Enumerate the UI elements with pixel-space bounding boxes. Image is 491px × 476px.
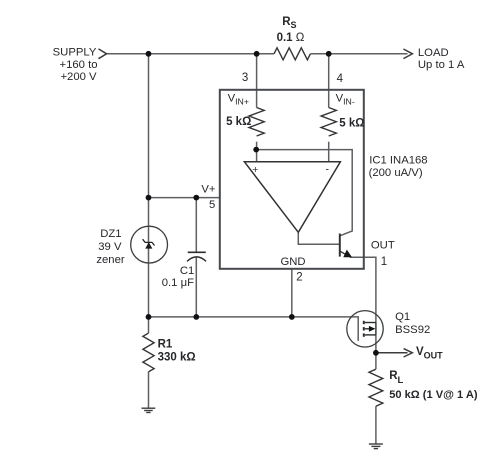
svg-text:1: 1: [381, 256, 387, 268]
IC1 box: [220, 90, 364, 269]
svg-text:R1: R1: [158, 338, 173, 350]
MOSFET Q1 body arrowhead: [369, 326, 376, 332]
svg-text:GND: GND: [280, 256, 305, 268]
svg-text:C1: C1: [180, 265, 194, 277]
MOSFET Q1 circle: [347, 311, 383, 347]
wire pin 3: [256, 54, 258, 108]
node bottom rail / GND pin: [289, 314, 295, 320]
wire R1 bottom lead: [148, 372, 150, 408]
wire OUT pin 1 to Q1 drain: [350, 257, 376, 322]
MOSFET Q1 channel dashes: [363, 321, 365, 337]
svg-text:0.1 Ω: 0.1 Ω: [277, 32, 305, 44]
capacitor C1 curved plate: [187, 257, 206, 262]
resistor R1: [143, 333, 154, 372]
svg-text:2: 2: [296, 271, 302, 283]
svg-text:Q1: Q1: [395, 311, 410, 323]
node RS right / pin4: [326, 51, 332, 57]
svg-text:5 kΩ: 5 kΩ: [226, 116, 251, 128]
svg-text:4: 4: [337, 73, 344, 85]
wire C1 bottom lead: [195, 257, 197, 317]
svg-text:50 kΩ (1 V@ 1 A): 50 kΩ (1 V@ 1 A): [389, 389, 478, 401]
node junction dots: [146, 51, 379, 356]
wire GND pin 2: [291, 269, 293, 317]
ground (RL): [369, 444, 383, 449]
wire RL bottom lead: [375, 406, 377, 444]
wire VOUT arrow: [376, 352, 408, 354]
svg-text:SUPPLY: SUPPLY: [53, 47, 97, 59]
svg-text:5 kΩ: 5 kΩ: [339, 117, 364, 129]
svg-text:V+: V+: [201, 183, 216, 195]
resistor 5k right: [321, 108, 336, 137]
svg-text:zener: zener: [96, 254, 124, 266]
zener DZ1 circle: [131, 226, 168, 263]
svg-text:+200 V: +200 V: [60, 71, 97, 83]
load arrow head: [403, 49, 412, 59]
wire bottom rail to Q1 gate: [149, 317, 359, 341]
node supply/left-rail: [146, 51, 152, 57]
wire pin 4: [328, 54, 330, 108]
svg-text:IC1 INA168: IC1 INA168: [369, 154, 427, 166]
svg-text:+160 to: +160 to: [59, 59, 97, 71]
wire op-amp output to base: [298, 232, 339, 244]
svg-text:(200 uA/V): (200 uA/V): [369, 167, 423, 179]
MOSFET Q1 drain/source/body leads: [365, 323, 376, 335]
node V+ / C1: [193, 195, 199, 201]
node RS left / pin3: [254, 51, 260, 57]
wire top rail right segment: [310, 53, 407, 55]
svg-text:0.1 μF: 0.1 μF: [162, 277, 194, 289]
wire top rail left segment: [107, 53, 275, 55]
svg-text:+: +: [252, 164, 258, 176]
op-amp U1 triangle: [244, 162, 340, 233]
svg-text:5: 5: [209, 199, 215, 211]
transistor emitter diagonal: [340, 251, 351, 257]
wire C1 top lead: [195, 198, 197, 252]
resistor 5k left: [249, 108, 264, 137]
capacitor C1 top plate: [188, 251, 206, 253]
wire left rail vertical: [148, 54, 150, 317]
resistor RS: [274, 48, 310, 60]
ground (R1): [142, 408, 156, 412]
supply input chevron: [99, 49, 107, 59]
svg-text:Up to 1 A: Up to 1 A: [418, 59, 465, 71]
wire V+ branch: [149, 197, 220, 199]
wire R1 top lead: [148, 317, 150, 333]
node op-amp +input: [253, 147, 259, 153]
svg-text:LOAD: LOAD: [418, 47, 449, 59]
wire 5k right to -input: [328, 142, 330, 162]
node bottom rail / C1: [193, 314, 199, 320]
wire Q1 source to VOUT node and RL: [375, 335, 377, 369]
transistor internal NPN bar: [339, 234, 341, 257]
node V+ left: [146, 195, 152, 201]
svg-text:330 kΩ: 330 kΩ: [158, 351, 196, 363]
svg-text:OUT: OUT: [371, 240, 395, 252]
transistor emitter arrowhead: [343, 250, 352, 258]
resistor RL: [369, 369, 383, 406]
node VOUT: [373, 350, 379, 356]
node bottom rail / R1: [146, 314, 152, 320]
wire feedback from +node to output transistor: [256, 150, 352, 236]
svg-text:39 V: 39 V: [98, 241, 122, 253]
svg-text:BSS92: BSS92: [395, 324, 430, 336]
svg-text:-: -: [326, 163, 330, 175]
zener DZ1 cathode bar: [143, 239, 155, 245]
svg-text:3: 3: [242, 72, 248, 84]
svg-text:DZ1: DZ1: [100, 228, 121, 240]
wire 5k left to +input: [256, 142, 258, 162]
zener DZ1 anode triangle: [145, 242, 152, 248]
